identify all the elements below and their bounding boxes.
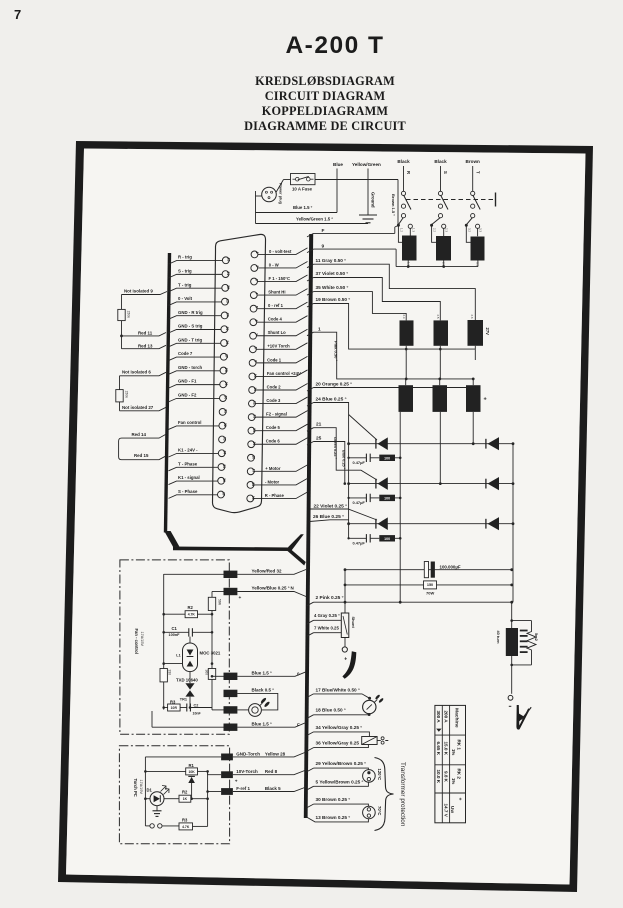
svg-text:22 Violet 0.25 °: 22 Violet 0.25 ° — [314, 503, 348, 509]
svg-text:Shunt Hi: Shunt Hi — [268, 289, 285, 294]
svg-text:20: 20 — [227, 258, 231, 262]
svg-text:T - trig: T - trig — [178, 282, 192, 287]
svg-text:Shunt: Shunt — [351, 617, 356, 629]
svg-text:33: 33 — [223, 437, 227, 441]
svg-text:Fan - control: Fan - control — [134, 629, 139, 654]
svg-text:70W: 70W — [426, 590, 434, 595]
svg-text:29 Yellow/Brown 0.25 °: 29 Yellow/Brown 0.25 ° — [316, 761, 367, 766]
svg-text:Black: Black — [397, 159, 410, 164]
svg-text:6: 6 — [254, 320, 258, 322]
svg-text:Brown 1.5 °: Brown 1.5 ° — [391, 194, 396, 216]
svg-text:Uw: Uw — [450, 806, 455, 813]
svg-text:GND - S trig: GND - S trig — [178, 324, 203, 329]
svg-text:KREDSLØBSDIAGRAM: KREDSLØBSDIAGRAM — [255, 74, 395, 88]
svg-text:MOC 3021: MOC 3021 — [200, 651, 221, 656]
svg-text:18: 18 — [251, 482, 255, 486]
svg-text:10K: 10K — [188, 770, 195, 774]
svg-text:150: 150 — [427, 583, 433, 587]
svg-text:S - trig: S - trig — [178, 268, 192, 273]
svg-text:2.4: 2.4 — [402, 315, 406, 319]
svg-text:32: 32 — [223, 423, 227, 427]
svg-text:A-200 T: A-200 T — [285, 32, 384, 59]
svg-text:40 turn: 40 turn — [496, 631, 501, 645]
svg-text:2.5: 2.5 — [436, 315, 440, 319]
svg-text:Red 15: Red 15 — [134, 453, 149, 458]
svg-text:0 - ref 1: 0 - ref 1 — [268, 303, 284, 308]
svg-text:27V: 27V — [485, 328, 490, 336]
svg-text:Yellow/Blue 0.25 °: Yellow/Blue 0.25 ° — [252, 586, 290, 591]
svg-text:56R: 56R — [217, 599, 221, 606]
svg-text:18 Blue 0.50 °: 18 Blue 0.50 ° — [316, 708, 346, 713]
svg-text:GND-Torch: GND-Torch — [236, 751, 260, 756]
svg-text:7: 7 — [254, 333, 258, 335]
svg-text:29: 29 — [224, 382, 228, 386]
svg-text:17: 17 — [251, 469, 255, 473]
svg-text:+: + — [484, 397, 487, 403]
svg-text:K1 - 24V -: K1 - 24V - — [178, 448, 198, 453]
svg-text:24: 24 — [225, 313, 229, 317]
svg-text:Yellow/Green: Yellow/Green — [352, 162, 381, 167]
svg-text:7 White 0.25: 7 White 0.25 — [314, 626, 339, 631]
svg-text:30 Brown 0.25 °: 30 Brown 0.25 ° — [316, 797, 351, 802]
svg-text:Transformer protection: Transformer protection — [399, 762, 406, 827]
svg-text:14.7 V: 14.7 V — [443, 804, 448, 818]
svg-text:Shunt Lo: Shunt Lo — [268, 330, 287, 335]
svg-text:Blue 0.25 °: Blue 0.25 ° — [341, 450, 345, 470]
svg-text:R3: R3 — [182, 818, 188, 823]
svg-text:37 Violet 0.50 °: 37 Violet 0.50 ° — [316, 271, 349, 276]
svg-text:17A/19V: 17A/19V — [139, 780, 143, 795]
svg-text:TR1: TR1 — [180, 698, 187, 702]
svg-text:Yellow/Green 1.5 °: Yellow/Green 1.5 ° — [296, 217, 333, 222]
svg-text:35 White 0.50 °: 35 White 0.50 ° — [316, 285, 349, 290]
svg-text:+: + — [344, 657, 347, 663]
svg-text:Code 1: Code 1 — [267, 357, 282, 362]
svg-text:19 Brown 0.50 °: 19 Brown 0.50 ° — [316, 297, 351, 302]
svg-text:D1: D1 — [147, 788, 153, 793]
svg-text:Green 0.25 °: Green 0.25 ° — [333, 437, 337, 459]
svg-text:36: 36 — [222, 478, 226, 482]
svg-text:1.3: 1.3 — [411, 228, 415, 232]
svg-text:S: S — [443, 171, 448, 174]
svg-text:Torch PC: Torch PC — [133, 779, 138, 797]
svg-text:Red 14: Red 14 — [132, 432, 147, 437]
svg-text:Fan control +24V: Fan control +24V — [267, 371, 301, 376]
svg-text:TXD 10640: TXD 10640 — [176, 678, 198, 683]
svg-text:100: 100 — [384, 497, 390, 501]
svg-text:3.3: 3.3 — [479, 228, 483, 232]
svg-text:Black 0.5 °: Black 0.5 ° — [252, 688, 275, 693]
svg-text:R1: R1 — [189, 763, 195, 768]
svg-text:R - trig: R - trig — [178, 255, 192, 260]
svg-text:330: 330 — [168, 670, 172, 676]
svg-text:8: 8 — [254, 347, 258, 349]
svg-text:26 Blue 0.25 °: 26 Blue 0.25 ° — [313, 514, 344, 520]
svg-text:0 - Volt: 0 - Volt — [178, 296, 193, 301]
svg-text:Code 5: Code 5 — [266, 425, 281, 430]
svg-text:28: 28 — [224, 368, 228, 372]
svg-text:6.65 K: 6.65 K — [436, 742, 441, 756]
svg-text:100nF: 100nF — [169, 633, 181, 637]
svg-text:F 1 - 150°C: F 1 - 150°C — [269, 276, 290, 281]
svg-text:Code 3: Code 3 — [266, 398, 281, 403]
svg-text:R2: R2 — [188, 605, 194, 610]
svg-text:100: 100 — [384, 537, 390, 541]
svg-text:DIAGRAMME DE CIRCUIT: DIAGRAMME DE CIRCUIT — [244, 119, 406, 133]
svg-text:24 Blue 0.25 °: 24 Blue 0.25 ° — [316, 396, 347, 402]
svg-text:R: R — [406, 171, 411, 174]
svg-text:+: + — [456, 798, 462, 801]
svg-text:GND - F1: GND - F1 — [178, 379, 197, 384]
svg-text:10R: 10R — [171, 706, 178, 710]
svg-text:Machine: Machine — [453, 708, 459, 728]
svg-text:5m2: 5m2 — [534, 633, 539, 642]
svg-text:Pink 0.50 °: Pink 0.50 ° — [334, 341, 339, 361]
svg-text:0.47µF: 0.47µF — [353, 541, 366, 546]
svg-text:Code 4: Code 4 — [268, 317, 283, 322]
svg-text:22: 22 — [226, 285, 230, 289]
svg-text:9.8 K: 9.8 K — [443, 771, 448, 783]
svg-text:100: 100 — [384, 456, 390, 460]
svg-text:300 A: 300 A — [436, 711, 441, 724]
svg-text:30: 30 — [224, 396, 228, 400]
svg-text:F-ref 1: F-ref 1 — [236, 786, 250, 791]
svg-text:C2: C2 — [194, 704, 199, 708]
svg-text:10: 10 — [253, 374, 257, 378]
svg-text:10 A Fuse: 10 A Fuse — [292, 187, 313, 192]
svg-text:14: 14 — [252, 428, 256, 432]
svg-text:36 Yellow/Gray 0.25: 36 Yellow/Gray 0.25 — [316, 741, 360, 746]
svg-text:Code 7: Code 7 — [178, 351, 193, 356]
svg-text:17 Blue/White 0.50 °: 17 Blue/White 0.50 ° — [316, 688, 360, 693]
svg-text:120°C: 120°C — [377, 769, 382, 781]
svg-text:4.7K: 4.7K — [188, 613, 196, 617]
svg-text:34 Yellow/Gray 0.25 °: 34 Yellow/Gray 0.25 ° — [316, 725, 363, 730]
svg-text:T: T — [475, 171, 480, 174]
svg-text:34: 34 — [222, 451, 226, 455]
svg-text:3: 3 — [255, 279, 259, 281]
svg-text:21: 21 — [316, 422, 322, 428]
svg-text:25: 25 — [316, 436, 322, 442]
svg-text:37: 37 — [222, 492, 226, 496]
svg-text:9: 9 — [322, 244, 325, 250]
svg-text:Blue 1.5 °: Blue 1.5 ° — [293, 205, 313, 210]
svg-text:Brown: Brown — [466, 159, 480, 164]
svg-text:R - Phase: R - Phase — [265, 493, 285, 498]
svg-text:4.7K: 4.7K — [182, 825, 190, 829]
svg-text:Code 6: Code 6 — [266, 439, 281, 444]
svg-text:13: 13 — [252, 415, 256, 419]
svg-text:Fan control: Fan control — [178, 420, 201, 425]
svg-text:27: 27 — [224, 354, 228, 358]
svg-text:17A/15V: 17A/15V — [140, 632, 144, 647]
svg-text:- Motor: - Motor — [265, 479, 280, 484]
svg-text:RK 1: RK 1 — [456, 740, 461, 751]
svg-text:0.47µF: 0.47µF — [353, 500, 366, 505]
svg-text:0.47µF: 0.47µF — [353, 460, 366, 465]
svg-text:3.2: 3.2 — [467, 228, 471, 232]
svg-text:2 Pink 0.25 °: 2 Pink 0.25 ° — [316, 595, 344, 601]
svg-text:16: 16 — [252, 455, 256, 459]
svg-text:10nF: 10nF — [193, 712, 202, 716]
svg-text:0 - volt-test: 0 - volt-test — [269, 249, 292, 254]
svg-text:4 Gray 0.25 °: 4 Gray 0.25 ° — [314, 613, 340, 618]
svg-text:5 Yellow/Brown 0.25 °: 5 Yellow/Brown 0.25 ° — [316, 779, 364, 784]
svg-text:Not isolated 27: Not isolated 27 — [122, 405, 154, 410]
svg-text:2.6: 2.6 — [470, 315, 474, 319]
svg-text:15: 15 — [252, 442, 256, 446]
svg-text:Ground: Ground — [371, 192, 376, 208]
svg-text:T - Phase: T - Phase — [178, 461, 198, 466]
svg-text:1K: 1K — [183, 797, 188, 801]
svg-text:Red 13: Red 13 — [138, 344, 153, 349]
svg-text:25: 25 — [225, 327, 229, 331]
svg-text:35: 35 — [222, 464, 226, 468]
svg-text:1%: 1% — [451, 778, 456, 784]
svg-text:F2 - signal: F2 - signal — [266, 412, 287, 417]
svg-text:K1 - signal: K1 - signal — [178, 475, 200, 480]
svg-text:12: 12 — [253, 401, 257, 405]
svg-text:Black 5: Black 5 — [265, 786, 281, 791]
svg-text:Red 11: Red 11 — [138, 331, 153, 336]
svg-text:GND - R trig: GND - R trig — [178, 310, 203, 315]
svg-text:Not isolated 9: Not isolated 9 — [124, 289, 153, 294]
svg-text:4: 4 — [254, 292, 258, 294]
svg-text:2.3: 2.3 — [445, 228, 449, 232]
svg-text:360: 360 — [205, 670, 209, 676]
svg-text:20 Orange 0.25 °: 20 Orange 0.25 ° — [316, 381, 353, 386]
svg-text:9: 9 — [253, 360, 257, 362]
svg-text:15.0 K: 15.0 K — [443, 742, 448, 756]
svg-text:Code 2: Code 2 — [267, 384, 282, 389]
svg-text:+: + — [239, 596, 242, 601]
svg-text:Blue 1.5 °: Blue 1.5 ° — [252, 671, 273, 676]
svg-text:Not isolated 6: Not isolated 6 — [122, 370, 151, 375]
svg-text:Black: Black — [434, 159, 447, 164]
svg-text:200 A: 200 A — [443, 711, 448, 724]
svg-text:70°C: 70°C — [377, 806, 382, 815]
svg-text:GND - torch: GND - torch — [178, 365, 202, 370]
svg-text:23: 23 — [226, 299, 230, 303]
svg-text:2.2: 2.2 — [433, 228, 437, 232]
svg-text:1.2: 1.2 — [400, 228, 404, 232]
svg-text:Blue 1.5 °: Blue 1.5 ° — [252, 722, 273, 727]
svg-text:CIRCUIT DIAGRAM: CIRCUIT DIAGRAM — [265, 89, 386, 103]
svg-text:1: 1 — [255, 252, 259, 254]
svg-text:R2: R2 — [182, 790, 188, 795]
svg-text:2: 2 — [255, 265, 259, 267]
svg-text:19: 19 — [251, 496, 255, 500]
svg-text:Blue: Blue — [333, 162, 343, 167]
svg-text:S - Phase: S - Phase — [178, 489, 198, 494]
svg-text:0 - W: 0 - W — [269, 262, 279, 267]
svg-text:11 Gray 0.50 °: 11 Gray 0.50 ° — [316, 258, 347, 263]
svg-text:10.0 K: 10.0 K — [436, 770, 441, 784]
svg-text:R3: R3 — [170, 699, 176, 704]
svg-text:C1: C1 — [172, 626, 178, 631]
svg-text:31: 31 — [223, 409, 227, 413]
svg-text:+10V Torch: +10V Torch — [267, 344, 290, 349]
svg-text:+ Motor: + Motor — [265, 466, 281, 471]
svg-text:1: 1 — [318, 327, 321, 333]
svg-text:11: 11 — [253, 387, 257, 391]
svg-text:100.000µF: 100.000µF — [440, 564, 461, 569]
svg-text:1%: 1% — [451, 749, 456, 755]
svg-text:Red 8: Red 8 — [265, 769, 278, 774]
svg-text:GND - F2: GND - F2 — [178, 393, 197, 398]
svg-text:150k: 150k — [127, 311, 131, 319]
svg-text:Yellow 28: Yellow 28 — [265, 751, 286, 756]
svg-text:150k: 150k — [125, 391, 129, 399]
svg-text:5: 5 — [254, 306, 258, 308]
svg-text:L1: L1 — [176, 653, 180, 657]
svg-text:F: F — [322, 228, 325, 234]
svg-text:KOPPELDIAGRAMM: KOPPELDIAGRAMM — [262, 104, 389, 118]
svg-text:13 Brown 0.25 °: 13 Brown 0.25 ° — [316, 815, 351, 820]
svg-text:+: + — [235, 779, 238, 784]
svg-text:10V-Torch: 10V-Torch — [236, 769, 258, 774]
svg-text:26: 26 — [225, 340, 229, 344]
svg-text:RK 2: RK 2 — [456, 769, 461, 780]
svg-text:21: 21 — [226, 271, 230, 275]
svg-text:GND - T trig: GND - T trig — [178, 337, 202, 342]
svg-text:Yellow/Red 32: Yellow/Red 32 — [252, 568, 283, 573]
svg-text:N: N — [291, 586, 294, 591]
svg-text:7: 7 — [14, 7, 21, 22]
